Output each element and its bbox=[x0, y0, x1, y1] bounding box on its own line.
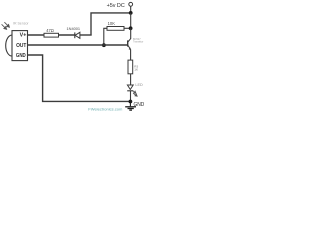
node 10K-rail junction bbox=[129, 26, 133, 30]
wire GND pin bottom loop bbox=[28, 55, 131, 101]
node ground junction bbox=[129, 100, 133, 104]
svg-text:10K: 10K bbox=[108, 21, 116, 26]
IR sensor module U1 (body) bbox=[6, 35, 12, 56]
svg-text:47Ω: 47Ω bbox=[46, 28, 54, 33]
wire V+ to R1 bbox=[28, 34, 44, 36]
transistor Q1 bbox=[128, 38, 131, 49]
resistor R3 1K bbox=[128, 60, 133, 74]
wire OUT to base bbox=[28, 44, 128, 46]
wire R2 right to rail bbox=[124, 27, 131, 29]
node supply junction bbox=[129, 11, 133, 15]
wire rail to 10K tap bbox=[130, 13, 132, 28]
svg-text:Transistor: Transistor bbox=[133, 39, 143, 43]
wire LED to ground node bbox=[130, 91, 132, 102]
node base-wire junction bbox=[102, 43, 106, 47]
wire terminal stub bbox=[130, 6, 132, 13]
svg-text:OUT: OUT bbox=[16, 43, 27, 49]
svg-text:1N4001: 1N4001 bbox=[66, 26, 80, 31]
svg-text:FWelectronics.com: FWelectronics.com bbox=[88, 107, 122, 111]
resistor R2 10K bbox=[107, 27, 124, 31]
svg-text:GND: GND bbox=[16, 53, 26, 59]
svg-text:V+: V+ bbox=[20, 33, 27, 39]
diode D1 1N4001 bbox=[74, 32, 76, 38]
terminal +5V bbox=[129, 2, 133, 6]
svg-text:IR Sensor: IR Sensor bbox=[13, 22, 29, 26]
resistor R1 47ohm bbox=[44, 33, 59, 37]
wire D1 to corner bbox=[80, 34, 92, 36]
wire R1 to D1 bbox=[59, 34, 76, 36]
svg-text:LED: LED bbox=[135, 83, 143, 87]
wire rail to collector bbox=[130, 28, 132, 39]
LED D2 bbox=[127, 85, 133, 90]
IR light arrows bbox=[2, 22, 10, 29]
wire corner up bbox=[91, 13, 131, 36]
wire R2 left down to base wire bbox=[104, 28, 107, 45]
wire R3 to LED bbox=[130, 74, 132, 85]
ground bbox=[125, 102, 136, 111]
svg-text:+5v DC: +5v DC bbox=[107, 3, 125, 9]
wire emitter to R3 bbox=[130, 49, 132, 60]
